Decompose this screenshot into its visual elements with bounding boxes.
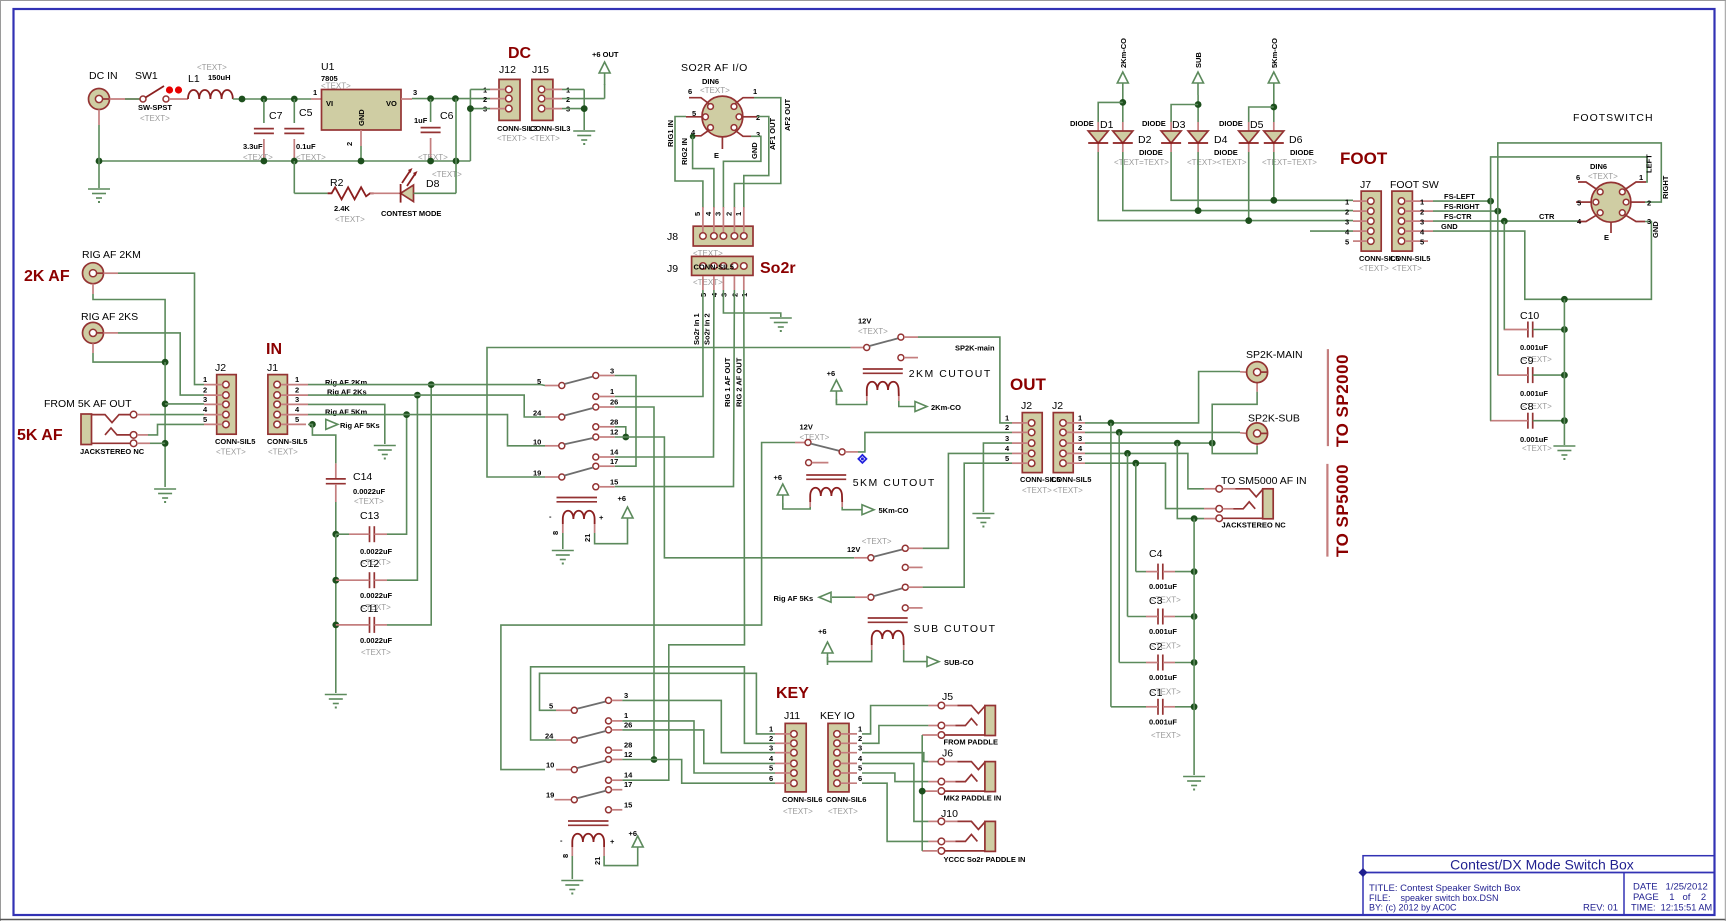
svg-text:12: 12 (610, 428, 618, 437)
svg-text:14: 14 (624, 771, 633, 780)
svg-text:FILE: speaker switch box.DS: FILE: speaker switch box.DSN (1369, 893, 1499, 903)
svg-text:17: 17 (610, 457, 618, 466)
svg-text:GND: GND (1651, 221, 1660, 238)
svg-text:<TEXT>: <TEXT> (361, 648, 391, 657)
wire throw 28 to node (615, 427, 626, 437)
svg-text:E: E (1604, 233, 1609, 242)
capacitor C11 (332, 622, 339, 629)
wire J9 pin5 down to row 1 (615, 290, 703, 397)
wire 2KM coil right to net 2Km-CO (899, 401, 916, 407)
svg-text:19: 19 (546, 791, 554, 800)
svg-text:KEY IO: KEY IO (820, 710, 855, 722)
svg-text:BY: (c) 2012 by AC0C: BY: (c) 2012 by AC0C (1369, 903, 1457, 913)
wire K2 coil left to ground (571, 856, 573, 879)
node Rig AF 5Ks (326, 419, 338, 429)
svg-text:DIN6: DIN6 (1590, 162, 1607, 171)
wire J9 pin2 down to row 15 (615, 290, 735, 487)
wire D2 anode to arrow (1122, 95, 1124, 122)
svg-text:3: 3 (203, 395, 207, 404)
svg-text:FS-RIGHT: FS-RIGHT (1444, 202, 1480, 211)
svg-text:Rig AF 5Ks: Rig AF 5Ks (340, 421, 380, 430)
svg-text:JACKSTEREO NC: JACKSTEREO NC (1222, 521, 1287, 530)
wire J2B pin5 to jack ring (1085, 463, 1204, 508)
svg-text:1: 1 (1639, 173, 1643, 182)
svg-text:5K AF: 5K AF (17, 427, 63, 444)
svg-text:C7: C7 (269, 110, 283, 122)
wire SUB coil right to net SUB-CO (904, 650, 928, 662)
capacitor C14 (335, 463, 337, 478)
svg-text:FS-LEFT: FS-LEFT (1444, 192, 1475, 201)
svg-text:PAGE 1 of 2: PAGE 1 of 2 (1633, 892, 1706, 903)
svg-text:3: 3 (413, 88, 417, 97)
wire D3/D6 cathodes to J7 pin1 (1171, 152, 1353, 200)
svg-text:<TEXT>: <TEXT> (1053, 486, 1083, 495)
svg-text:2: 2 (483, 95, 487, 104)
svg-text:J12: J12 (499, 64, 516, 76)
svg-text:8: 8 (551, 531, 560, 535)
svg-text:FOOT SW: FOOT SW (1390, 179, 1439, 191)
power +6 OUT (599, 62, 610, 85)
wire DIN2 AF1 OUT to J8 pin1 (744, 117, 769, 209)
wire KEYIO pin1 to J5 tip (862, 706, 928, 734)
svg-text:U1: U1 (321, 61, 335, 73)
svg-text:3: 3 (1647, 217, 1651, 226)
wire D1 top link (1098, 102, 1123, 122)
svg-text:0.001uF: 0.001uF (1149, 627, 1177, 636)
wire DIN3 GND to J8 pin3 (723, 136, 761, 208)
capacitor C1 (1158, 699, 1163, 715)
wire KEYIO pin3 to J6 tip (862, 753, 928, 762)
wire SUB coil left to +6 (828, 650, 872, 662)
ground (1183, 777, 1205, 791)
wire common to J2 pin3 (165, 403, 204, 405)
svg-text:FOOT: FOOT (1340, 149, 1388, 168)
svg-text:3: 3 (714, 212, 723, 216)
ground (972, 514, 994, 528)
wire 5KM coil right to net 5Km-CO (842, 507, 863, 510)
ground (88, 189, 110, 203)
svg-text:MK2 PADDLE IN: MK2 PADDLE IN (944, 794, 1002, 803)
capacitor C6 (430, 99, 432, 122)
svg-text:1: 1 (1345, 198, 1349, 207)
wire DIN5 to J8 pin5 (675, 117, 703, 209)
wire DIN4 to J8 pin4 (690, 134, 696, 140)
wire 2KM switch to J2out pin1 (918, 337, 1012, 423)
svg-text:5: 5 (1345, 238, 1349, 247)
section label TO SP2000 (1327, 349, 1329, 446)
svg-text:<TEXT>: <TEXT> (783, 807, 813, 816)
svg-text:L1: L1 (188, 73, 200, 85)
svg-text:CONN-SIL5: CONN-SIL5 (1051, 475, 1091, 484)
wire 2KS to J2 pin2 (104, 332, 119, 334)
ground (154, 489, 176, 503)
svg-text:Contest/DX Mode Switch Box: Contest/DX Mode Switch Box (1450, 857, 1634, 873)
svg-text:6: 6 (769, 774, 773, 783)
svg-text:1uF: 1uF (414, 116, 428, 125)
svg-text:YCCC So2r PADDLE IN: YCCC So2r PADDLE IN (944, 855, 1026, 864)
wire L1 to U1 (233, 98, 311, 100)
svg-text:2: 2 (345, 142, 354, 146)
svg-text:<TEXT>: <TEXT> (140, 114, 170, 123)
svg-text:TO SM5000 AF IN: TO SM5000 AF IN (1221, 475, 1307, 487)
wire J12 pin1 riser (470, 88, 490, 90)
svg-text:C12: C12 (360, 558, 379, 570)
svg-text:<TEXT>: <TEXT> (268, 448, 298, 457)
svg-text:C6: C6 (440, 110, 454, 122)
jack FROM 5K AF OUT (81, 414, 92, 445)
svg-text:RIGHT: RIGHT (1661, 175, 1670, 199)
svg-text:C5: C5 (299, 107, 313, 119)
svg-text:1: 1 (1078, 414, 1082, 423)
svg-text:D1: D1 (1100, 119, 1114, 131)
svg-text:3: 3 (1345, 218, 1349, 227)
svg-text:150uH: 150uH (208, 73, 231, 82)
svg-text:6: 6 (1576, 173, 1580, 182)
svg-text:15: 15 (610, 478, 618, 487)
svg-text:C13: C13 (360, 510, 379, 522)
wire J9 pin4 down to row 14 (615, 290, 714, 457)
svg-text:VI: VI (326, 99, 333, 108)
wire 2KM coil left to +6 (836, 399, 866, 405)
svg-text:DIODE: DIODE (1070, 119, 1094, 128)
wire J12 pin3 (470, 108, 490, 110)
svg-text:10: 10 (533, 438, 541, 447)
svg-text:OUT: OUT (1010, 375, 1047, 394)
svg-text:CONN-SIL5: CONN-SIL5 (694, 263, 734, 272)
wire FS-LEFT to DIN pin1 (1433, 200, 1491, 202)
origin marker (858, 455, 866, 463)
svg-text:CTR: CTR (1539, 212, 1555, 221)
svg-text:+: + (599, 513, 604, 522)
svg-text:15: 15 (624, 801, 632, 810)
svg-text:0.0022uF: 0.0022uF (360, 591, 393, 600)
svg-text:<TEXT>: <TEXT> (335, 215, 365, 224)
wire jack ring to J2 pin5 (137, 434, 148, 436)
svg-text:+6: +6 (774, 473, 783, 482)
wire J9 pin1 down to lower bank row 14 (622, 290, 744, 780)
wire throw 26 down to lower bank throw 12 (615, 407, 654, 760)
svg-text:So2r In 1: So2r In 1 (692, 313, 701, 345)
wire 5KM coil left to +6 (783, 503, 810, 509)
wire D2/D4 cathodes to J7 pin2 (1123, 152, 1353, 211)
wire FS-CTR to DIN pin4 (1433, 220, 1578, 222)
svg-text:2: 2 (295, 386, 299, 395)
wire to R2 (293, 161, 295, 193)
ground rail (99, 160, 470, 162)
wire D5 top link (1249, 107, 1274, 122)
svg-text:<TEXT>: <TEXT> (858, 327, 888, 336)
svg-text:5: 5 (549, 702, 553, 711)
svg-text:D8: D8 (426, 178, 440, 190)
svg-text:1: 1 (610, 387, 614, 396)
svg-text:12V: 12V (800, 423, 813, 432)
svg-text:1: 1 (734, 212, 743, 216)
svg-text:0.0022uF: 0.0022uF (360, 636, 393, 645)
svg-text:1: 1 (295, 375, 299, 384)
svg-text:DIODE: DIODE (1219, 119, 1243, 128)
wire throw 12 to 12V switch pole (615, 437, 855, 558)
wire relay pole 19 to 2KM switch pole (487, 348, 851, 478)
svg-text:1: 1 (769, 725, 773, 734)
svg-text:1: 1 (858, 725, 862, 734)
svg-text:5: 5 (693, 212, 702, 216)
svg-text:DIODE: DIODE (1214, 148, 1238, 157)
svg-text:0.0022uF: 0.0022uF (353, 487, 386, 496)
svg-text:<TEXT>: <TEXT> (216, 448, 246, 457)
wire J2B pin3 net (1085, 442, 1212, 444)
svg-text:2KM CUTOUT: 2KM CUTOUT (909, 368, 992, 380)
svg-text:C14: C14 (353, 471, 372, 483)
svg-text:2K AF: 2K AF (24, 268, 70, 285)
svg-text:<TEXT>: <TEXT> (354, 497, 384, 506)
svg-text:0.001uF: 0.001uF (1149, 718, 1177, 727)
svg-text:2: 2 (725, 212, 734, 216)
svg-text:17: 17 (624, 780, 632, 789)
wire 2KM shell down (92, 284, 94, 294)
wire D3 top link (1171, 105, 1198, 123)
wire J15 pin2 to +6 OUT (562, 98, 605, 100)
svg-text:DC: DC (508, 45, 532, 62)
ground (573, 131, 595, 145)
svg-text:J15: J15 (532, 64, 549, 76)
svg-text:2.4K: 2.4K (334, 204, 350, 213)
capacitor C2 (1158, 655, 1163, 671)
wire FS verticals to caps (1490, 201, 1492, 421)
wire DC IN shell down (98, 110, 100, 126)
svg-text:0.1uF: 0.1uF (296, 142, 316, 151)
svg-text:IN: IN (266, 341, 282, 358)
svg-text:Rig AF 5Ks: Rig AF 5Ks (774, 594, 814, 603)
svg-text:TO SP2000: TO SP2000 (1333, 354, 1352, 447)
svg-text:SW-SPST: SW-SPST (138, 103, 172, 112)
svg-text:28: 28 (610, 418, 618, 427)
svg-text:12V: 12V (847, 545, 860, 554)
svg-text:RIG2 IN: RIG2 IN (680, 138, 689, 165)
svg-text:KEY: KEY (776, 685, 809, 702)
svg-text:<TEXT>: <TEXT> (1151, 731, 1181, 740)
svg-text:0.001uF: 0.001uF (1149, 582, 1177, 591)
svg-text:1: 1 (313, 88, 317, 97)
svg-text:J1: J1 (267, 362, 278, 374)
wire J2B pin4 to jack tip (1085, 453, 1204, 488)
svg-text:<TEXT>: <TEXT> (700, 86, 730, 95)
svg-text:2: 2 (756, 113, 760, 122)
svg-text:D3: D3 (1172, 119, 1186, 131)
svg-text:5: 5 (203, 415, 207, 424)
svg-text:C10: C10 (1520, 310, 1539, 322)
svg-text:10: 10 (546, 761, 554, 770)
svg-text:RIG AF 2KS: RIG AF 2KS (81, 311, 138, 323)
svg-text:SP2K-MAIN: SP2K-MAIN (1246, 349, 1303, 361)
svg-text:<TEXT>: <TEXT> (1392, 264, 1422, 273)
svg-text:3: 3 (858, 744, 862, 753)
svg-text:C9: C9 (1520, 355, 1534, 367)
svg-text:C11: C11 (360, 603, 379, 615)
wire 2KM to J2 pin1 (104, 272, 119, 274)
wire FS-RIGHT to DIN pin2 (1433, 210, 1498, 212)
wire D1/D5 cathodes to J7 pin3 (1098, 152, 1353, 221)
svg-text:JACKSTEREO NC: JACKSTEREO NC (80, 447, 145, 456)
svg-text:3: 3 (624, 691, 628, 700)
regulator U1 (322, 90, 402, 131)
svg-text:<TEXT>: <TEXT> (321, 82, 351, 91)
svg-text:<TEXT>: <TEXT> (530, 134, 560, 143)
svg-text:0.0022uF: 0.0022uF (360, 547, 393, 556)
svg-text:SUB CUTOUT: SUB CUTOUT (914, 623, 997, 635)
svg-text:D6: D6 (1289, 134, 1303, 146)
svg-text:SP2K-main: SP2K-main (955, 344, 995, 353)
svg-text:R2: R2 (330, 177, 344, 189)
svg-text:28: 28 (624, 741, 632, 750)
svg-text:2: 2 (203, 386, 207, 395)
svg-text:6: 6 (688, 87, 692, 96)
svg-text:<TEXT>: <TEXT> (1022, 486, 1052, 495)
inductor L1 (169, 98, 188, 100)
wire cap rail to ground (1193, 519, 1195, 775)
wire D8 to rail (414, 192, 457, 194)
svg-text:3: 3 (1420, 218, 1424, 227)
wire J1 pin1 to relay pole 5 (308, 384, 541, 386)
ground (561, 881, 583, 895)
wire J1 pin4 to relay pole 10 (308, 415, 545, 446)
svg-text:DIODE: DIODE (1139, 148, 1163, 157)
wire switch to J2out pin4 (923, 453, 1012, 548)
wire U1 VO to J12 (401, 98, 412, 100)
svg-text:1: 1 (203, 375, 207, 384)
svg-text:5: 5 (295, 415, 299, 424)
svg-text:14: 14 (610, 448, 619, 457)
svg-text:C1: C1 (1149, 687, 1163, 699)
svg-text:3.3uF: 3.3uF (243, 142, 263, 151)
wire J2B pin1 to SP2K-MAIN (1085, 372, 1240, 423)
svg-text:RIG 1 AF OUT: RIG 1 AF OUT (723, 357, 732, 407)
svg-text:8: 8 (561, 854, 570, 858)
svg-text:CONN-SIL6: CONN-SIL6 (826, 795, 866, 804)
svg-text:CONN-SIL5: CONN-SIL5 (267, 437, 307, 446)
svg-text:24: 24 (545, 732, 554, 741)
wire pin3 node to SP2K-SUB shell (1212, 443, 1257, 454)
svg-text:J7: J7 (1360, 179, 1371, 191)
svg-text:E: E (714, 151, 719, 160)
section label TO SP5000 (1326, 464, 1328, 557)
wire J2B pin2 to SP2K-SUB (1085, 431, 1240, 433)
svg-text:5: 5 (1420, 238, 1424, 247)
window edge lines (0, 0, 1726, 2)
svg-text:5: 5 (858, 764, 862, 773)
svg-text:<TEXT>: <TEXT> (693, 278, 723, 287)
svg-text:DIODE: DIODE (1142, 119, 1166, 128)
svg-text:2: 2 (566, 95, 570, 104)
wire throw 3 to throw 17 (615, 376, 636, 467)
svg-text:SO2R AF I/O: SO2R AF I/O (681, 62, 748, 74)
svg-text:2: 2 (1078, 423, 1082, 432)
U1 GND pin 2 (360, 130, 362, 146)
wire KEYIO pin2 to J5 ring (862, 726, 928, 744)
wire KEYIO pin4 to J10 tip (862, 763, 928, 821)
LED D8 (370, 192, 400, 194)
wire common down (164, 362, 166, 487)
svg-text:RIG1 IN: RIG1 IN (666, 120, 675, 147)
svg-text:24: 24 (533, 409, 542, 418)
svg-text:5: 5 (1005, 454, 1009, 463)
wire cap common to ground (1563, 299, 1565, 445)
svg-text:<TEXT>: <TEXT> (862, 537, 892, 546)
wire throw 26 to J11 pin4 (622, 730, 775, 764)
svg-text:J11: J11 (784, 710, 800, 722)
ground (552, 551, 574, 565)
svg-text:SUB: SUB (1194, 52, 1203, 68)
svg-text:3: 3 (610, 367, 614, 376)
svg-text:D2: D2 (1138, 134, 1152, 146)
svg-text:SUB-CO: SUB-CO (944, 658, 974, 667)
svg-text:5: 5 (1577, 199, 1581, 208)
svg-text:5: 5 (692, 109, 696, 118)
svg-text:RIG 2 AF OUT: RIG 2 AF OUT (735, 357, 744, 407)
svg-text:FROM PADDLE: FROM PADDLE (944, 738, 998, 747)
svg-text:LEFT: LEFT (1645, 154, 1654, 173)
svg-text:5Km-CO: 5Km-CO (879, 506, 909, 515)
svg-text:C3: C3 (1149, 595, 1163, 607)
svg-text:J2: J2 (1052, 400, 1063, 412)
svg-text:3: 3 (295, 395, 299, 404)
svg-text:TIME: 12:15:51 AM: TIME: 12:15:51 AM (1631, 903, 1712, 913)
wire SP2K-MAIN shell to pin3 node (1256, 383, 1258, 392)
ground (325, 695, 347, 709)
wire pole 5 feed (540, 673, 776, 734)
svg-text:2: 2 (1345, 208, 1349, 217)
svg-text:21: 21 (593, 857, 602, 865)
svg-text:FS-CTR: FS-CTR (1444, 212, 1472, 221)
wire pole 24 feed (531, 667, 775, 744)
svg-text:+: + (610, 837, 615, 846)
svg-text:0.001uF: 0.001uF (1520, 343, 1548, 352)
svg-text:3: 3 (1078, 434, 1082, 443)
svg-text:+6: +6 (818, 627, 827, 636)
svg-text:TO SP5000: TO SP5000 (1333, 464, 1352, 557)
wire throw 12 to J11 pin6 (622, 760, 775, 784)
wire J1 pin3 to ground (308, 404, 385, 444)
connector DC IN (89, 89, 110, 110)
svg-text:1: 1 (753, 87, 757, 96)
svg-text:C4: C4 (1149, 548, 1163, 560)
svg-text:1: 1 (1005, 414, 1009, 423)
svg-text:2: 2 (1647, 199, 1651, 208)
wire J2out pin3 to ground (983, 443, 1012, 512)
svg-text:1: 1 (624, 711, 628, 720)
wire J15 pin1/pin3 to ground (562, 88, 584, 90)
svg-text:26: 26 (624, 721, 632, 730)
svg-text:<TEXT>: <TEXT> (1522, 444, 1552, 453)
svg-text:CONN-SIL5: CONN-SIL5 (215, 437, 255, 446)
svg-text:12: 12 (624, 750, 632, 759)
svg-text:3: 3 (769, 744, 773, 753)
wire D4 anode to arrow (1197, 95, 1199, 122)
wire D6 anode to arrow (1273, 95, 1275, 122)
wire J1 pin2 to relay pole 24 (308, 395, 545, 417)
svg-text:3: 3 (1005, 434, 1009, 443)
svg-text:AF2 OUT: AF2 OUT (783, 98, 792, 131)
capacitor C3 (1158, 609, 1163, 625)
wire J7 pin4 stub (1310, 230, 1353, 232)
svg-text:5: 5 (769, 764, 773, 773)
ground (1553, 446, 1575, 460)
svg-text:2: 2 (769, 734, 773, 743)
svg-text:VO: VO (386, 99, 397, 108)
ground (374, 446, 396, 460)
wire jack sleeve to pin3 riser (1204, 518, 1216, 520)
svg-text:2: 2 (1005, 423, 1009, 432)
svg-text:So2r In 2: So2r In 2 (703, 313, 712, 345)
